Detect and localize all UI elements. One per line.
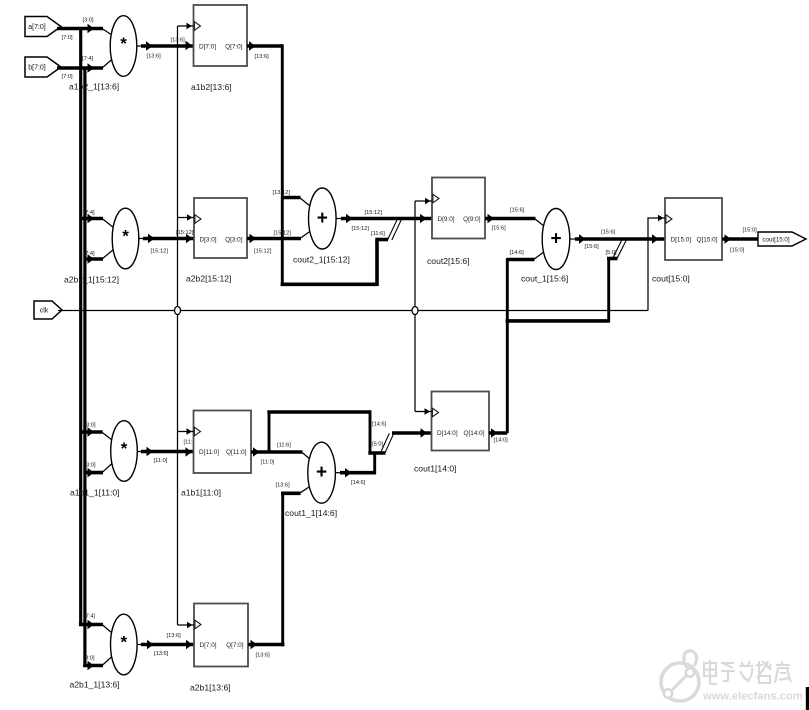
svg-text:cout[15:0]: cout[15:0] <box>652 274 690 284</box>
wire: cout1 Q output bus <box>489 431 507 435</box>
wire: clk tap to cout2 <box>415 200 432 202</box>
svg-text:[5:0]: [5:0] <box>606 250 617 256</box>
svg-text:[7:4]: [7:4] <box>84 614 95 620</box>
clock arrow a1b2 <box>187 23 193 30</box>
svg-text:[11:6]: [11:6] <box>277 443 291 449</box>
wire: slant a2b2 Q into adder <box>300 231 311 239</box>
wire: cout1[5:0] merge jog <box>607 257 618 261</box>
adder cout_1 <box>521 209 570 284</box>
wire: net a from port a to multiplier a1b2_1 <box>57 27 103 31</box>
wire: slant a1b2[13:12] into adder <box>300 198 311 207</box>
wire: b bus tap to a2b2_1 <box>85 257 103 261</box>
wire: cout1 Q riser <box>506 258 509 433</box>
wire: slant a into a2b1_1 <box>102 625 112 634</box>
wire: cout1_1 sum riser up to merge <box>373 453 376 474</box>
svg-text:a1b2_1[13:6]: a1b2_1[13:6] <box>69 82 119 92</box>
svg-text:[11:6]: [11:6] <box>371 231 385 237</box>
svg-text:[13:6]: [13:6] <box>276 483 291 489</box>
wire: a2b1[13:6] stub to adder cout1_1 <box>281 491 301 495</box>
wire: a1b1_1 product bus to register a1b1 <box>141 450 194 454</box>
wire: a2b2_1 product bus to register a2b2 <box>143 237 194 241</box>
svg-text:D[9:0]: D[9:0] <box>438 216 455 223</box>
wire: merged bus into register cout1 D <box>392 431 432 435</box>
svg-text:+: + <box>316 462 327 483</box>
svg-text:[14:6]: [14:6] <box>351 480 366 486</box>
svg-text:[11:0]: [11:0] <box>154 458 168 464</box>
wire: cout2_1 output stub <box>336 218 342 220</box>
svg-text:Q[9:0]: Q[9:0] <box>463 216 481 223</box>
wire: clk tap to cout1 <box>415 411 432 413</box>
svg-text:[15:6]: [15:6] <box>510 208 525 214</box>
svg-text:[3:0]: [3:0] <box>84 656 95 662</box>
svg-text:a1b1[11:0]: a1b1[11:0] <box>181 488 221 498</box>
wire: merge corner run <box>368 451 385 455</box>
wire: a bus tap to a2b2_1 <box>81 217 103 221</box>
svg-text:a2b1[13:6]: a2b1[13:6] <box>190 683 231 693</box>
wire: net b vertical bus riser <box>83 68 86 667</box>
wire: a1b2_1 output stub <box>137 45 142 47</box>
svg-text:[15:12]: [15:12] <box>274 231 292 237</box>
clk junction left <box>175 307 181 315</box>
wire: slant b into a2b2_1 <box>102 250 114 260</box>
svg-text:D[3:0]: D[3:0] <box>200 236 217 243</box>
register cout2 <box>427 178 485 267</box>
svg-text:D[11:0]: D[11:0] <box>199 449 219 456</box>
input port a[7:0] <box>25 17 61 37</box>
svg-text:[15:12]: [15:12] <box>254 249 272 255</box>
svg-text:[15:12]: [15:12] <box>176 230 194 236</box>
wire: a2b2 Q output bus to adder cout2_1 <box>247 237 301 241</box>
svg-text:+: + <box>550 229 561 250</box>
clk junction middle <box>412 307 418 315</box>
svg-text:b[7:0]: b[7:0] <box>28 64 46 71</box>
wire: a1b2_1 product bus to register a1b2 <box>141 44 194 48</box>
register a2b1 <box>190 604 248 693</box>
clock arrow cout <box>658 215 664 222</box>
multiplier a2b1_1 <box>70 614 138 689</box>
svg-text:[15:12]: [15:12] <box>352 226 370 232</box>
svg-text:[15:0]: [15:0] <box>743 228 758 234</box>
wire: a2b1 Q output bus <box>248 643 284 647</box>
svg-text:[3:0]: [3:0] <box>85 463 96 469</box>
svg-text:D[7:0]: D[7:0] <box>200 642 217 649</box>
wire: cout1[5:0] feeder bottom run <box>506 319 609 323</box>
svg-text:*: * <box>120 34 127 53</box>
svg-text:[13:6]: [13:6] <box>256 653 271 659</box>
register cout1 <box>414 392 489 474</box>
svg-text:[7:0]: [7:0] <box>62 74 73 80</box>
svg-text:clk: clk <box>40 307 49 314</box>
wire: slant a into a1b1_1 <box>102 432 112 440</box>
svg-text:[15:12]: [15:12] <box>365 210 383 216</box>
svg-text:[14:6]: [14:6] <box>372 422 387 428</box>
wire: cout2 Q output bus to adder cout_1 <box>485 217 536 221</box>
svg-text:[13:12]: [13:12] <box>273 190 291 196</box>
wire: a1b2[11:6] merge jog <box>375 238 388 242</box>
svg-text:a2b2[15:12]: a2b2[15:12] <box>186 274 231 284</box>
svg-text:a1b2[13:6]: a1b2[13:6] <box>191 82 232 92</box>
wire: slant a2b1[13:6] into adder cout1_1 <box>300 486 311 493</box>
wire: slant cout2 Q into adder cout_1 <box>535 219 545 227</box>
adder cout1_1 <box>285 442 337 518</box>
svg-text:Q[15:0]: Q[15:0] <box>697 236 718 243</box>
wire: cout Q output bus to port <box>722 237 758 241</box>
wire: clk riser middle column <box>414 201 416 412</box>
svg-text:[15:6]: [15:6] <box>585 244 600 250</box>
svg-text:*: * <box>122 227 129 246</box>
clock arrow a2b1 <box>187 622 193 629</box>
svg-text:Q[11:0]: Q[11:0] <box>226 449 247 456</box>
wire: net a slant into a1b2_1 <box>102 29 112 36</box>
svg-text:cout[15:0]: cout[15:0] <box>762 237 789 244</box>
wire: a2b1_1 product bus to register a2b1 <box>141 643 194 647</box>
input port clk <box>34 301 62 319</box>
register a1b1 <box>181 411 251 498</box>
svg-text:*: * <box>121 439 128 458</box>
svg-text:[7:0]: [7:0] <box>62 35 73 41</box>
svg-text:cout1_1[14:6]: cout1_1[14:6] <box>285 508 337 518</box>
wire: cout1[14:6] stub to adder cout_1 <box>507 258 534 262</box>
bus merge into cout D <box>612 240 626 259</box>
svg-text:+: + <box>317 208 328 229</box>
wire: cout1_1 sum bus right <box>340 471 375 475</box>
wire: slant a into a2b2_1 <box>102 219 114 228</box>
svg-text:[13:6]: [13:6] <box>255 54 270 60</box>
svg-text:cout2_1[15:12]: cout2_1[15:12] <box>293 255 350 265</box>
svg-text:[7:4]: [7:4] <box>84 210 95 216</box>
wire: net b slant into a1b2_1 <box>102 60 112 69</box>
svg-text:[3:0]: [3:0] <box>85 423 96 429</box>
wire: cout1[5:0] feeder riser <box>607 259 610 323</box>
svg-text:a1b1_1[11:0]: a1b1_1[11:0] <box>70 488 120 498</box>
wire: slant a1b1 Q into adder cout1_1 <box>302 452 311 460</box>
svg-text:*: * <box>120 633 127 652</box>
svg-text:[15:0]: [15:0] <box>730 248 745 254</box>
svg-text:[5:0]: [5:0] <box>372 442 383 448</box>
svg-text:cout2[15:6]: cout2[15:6] <box>427 256 470 266</box>
svg-text:Q[7:0]: Q[7:0] <box>226 642 244 649</box>
output port cout[15:0] <box>758 232 806 246</box>
wire: cout_1 output stub <box>570 238 576 240</box>
adder cout2_1 <box>293 188 350 265</box>
wire: b bus tap to a1b1_1 <box>85 471 103 475</box>
wire: slant b into a1b1_1 <box>102 464 112 473</box>
svg-text:[3:0]: [3:0] <box>83 18 94 24</box>
wire: a1b2 Q output bus <box>247 44 282 48</box>
wire: a bus corner into a2b1_1 <box>81 623 103 625</box>
wire: a bus tap to a1b1_1 <box>81 430 103 434</box>
wire: clk tap to a2b1 <box>178 624 195 626</box>
watermark logo elecfans <box>661 651 699 701</box>
svg-text:[14:6]: [14:6] <box>510 250 525 256</box>
wire: cout2_1 sum bus to register cout2 <box>341 217 432 221</box>
svg-text:a2b1_1[13:6]: a2b1_1[13:6] <box>70 680 120 690</box>
svg-text:[13:6]: [13:6] <box>167 633 182 639</box>
wire: cout_1 sum bus to register cout <box>575 237 665 241</box>
wire: a1b1[5:0] bypass riser up <box>268 412 271 452</box>
svg-text:cout_1[15:6]: cout_1[15:6] <box>521 274 568 284</box>
wire: a1b2[11:6] bypass bottom run <box>281 282 377 286</box>
wire: net a vertical bus riser <box>79 29 82 625</box>
svg-text:Q[14:0]: Q[14:0] <box>464 430 485 437</box>
wire: a1b1[5:0] bypass top run <box>267 410 370 414</box>
wire: slant cout1[14:6] into adder cout_1 <box>534 252 545 260</box>
svg-text:D[7:0]: D[7:0] <box>199 43 216 50</box>
clock arrow a2b2 <box>187 214 193 221</box>
wire: a2b1_1 output stub <box>137 644 142 646</box>
register a2b2 <box>186 198 247 284</box>
svg-text:D[15:0]: D[15:0] <box>671 236 692 243</box>
svg-text:[15:12]: [15:12] <box>151 249 169 255</box>
svg-text:D[14:0]: D[14:0] <box>437 430 458 437</box>
wire: clk run up to cout register <box>648 218 665 311</box>
multiplier a2b2_1 <box>64 208 139 284</box>
svg-text:[7:4]: [7:4] <box>84 251 95 257</box>
wire: slant b into a2b1_1 <box>102 657 112 666</box>
wire: a1b1 Q output bus to adder cout1_1 <box>251 450 303 454</box>
svg-text:[11:0]: [11:0] <box>261 460 275 466</box>
wire: a1b1[5:0] bypass down to merge <box>369 410 372 453</box>
svg-text:www.elecfans.com: www.elecfans.com <box>702 691 803 703</box>
watermark text dianzifashaoyou <box>704 660 791 684</box>
svg-text:[13:6]: [13:6] <box>154 651 169 657</box>
svg-text:Q[3:0]: Q[3:0] <box>225 236 243 243</box>
wire: clk tap to a2b2 <box>178 217 195 219</box>
clock arrow cout2 <box>425 198 431 205</box>
wire: clk net horizontal <box>58 310 648 312</box>
register cout <box>652 198 722 284</box>
svg-text:[15:6]: [15:6] <box>492 226 507 232</box>
clock arrow cout1 <box>425 408 431 415</box>
wire: a1b2 Q vertical riser down <box>281 44 284 284</box>
svg-text:[14:0]: [14:0] <box>494 438 509 444</box>
wire: a2b1 Q riser up to adder cout1_1 <box>281 493 284 646</box>
bus merge into cout2 D <box>388 220 402 240</box>
wire: b bus corner into a2b1_1 <box>85 663 103 667</box>
svg-text:Q[7:0]: Q[7:0] <box>225 43 243 50</box>
wire: a2b2_1 output stub <box>139 238 144 240</box>
svg-text:a2b2_1[15:12]: a2b2_1[15:12] <box>64 275 119 285</box>
wire: clk riser left column <box>177 26 179 625</box>
clock arrow a1b1 <box>187 428 193 435</box>
black bar bottom right edge <box>806 687 809 710</box>
wire: net b from port b to multiplier a1b2_1 <box>57 66 103 70</box>
svg-text:cout1[14:0]: cout1[14:0] <box>414 464 457 474</box>
wire: a1b2[13:12] tap to adder cout2_1 <box>282 196 300 200</box>
multiplier a1b1_1 <box>70 421 137 498</box>
register a1b2 <box>191 5 247 92</box>
wire: clk tap to a1b2 <box>178 25 194 27</box>
svg-text:[15:6]: [15:6] <box>601 230 616 236</box>
wire: clk tap to a1b1 <box>178 431 194 433</box>
svg-text:[7:4]: [7:4] <box>82 56 93 62</box>
input port b[7:0] <box>25 57 61 77</box>
svg-text:a[7:0]: a[7:0] <box>28 24 46 31</box>
wire: cout1_1 output stub <box>335 472 341 474</box>
svg-text:[13:6]: [13:6] <box>147 54 162 60</box>
multiplier a1b2_1 <box>69 16 137 92</box>
bus merge into cout1 D <box>380 433 394 453</box>
wire: a1b2[11:6] bypass riser up to merge <box>375 240 379 287</box>
wire: a1b1_1 output stub <box>137 451 142 453</box>
